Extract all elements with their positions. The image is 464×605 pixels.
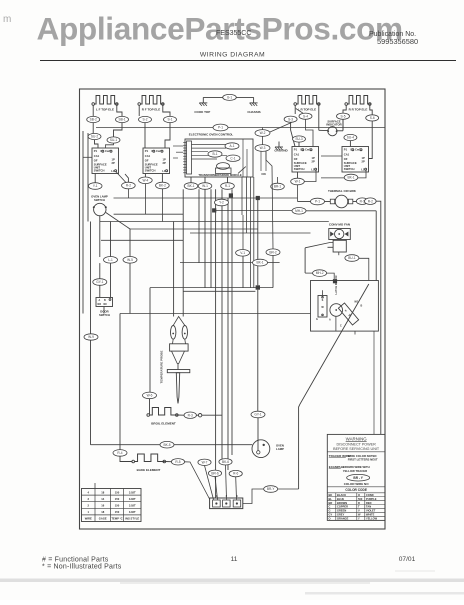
label C-3 [266, 249, 280, 256]
svg-text:R: R [358, 501, 360, 505]
temp probe receptacle [171, 326, 176, 340]
svg-text:G: G [316, 318, 318, 321]
svg-text:LATCH MOTOR: LATCH MOTOR [334, 275, 338, 294]
wire EOC drop d3 [250, 177, 252, 288]
svg-text:1P: 1P [312, 156, 315, 160]
ground CHASSIS [253, 97, 255, 103]
svg-text:P1: P1 [145, 149, 149, 153]
bus wire y210 [306, 210, 376, 212]
svg-text:G: G [329, 509, 331, 513]
svg-text:150: 150 [115, 490, 120, 494]
wire S-2 to S2 [144, 123, 146, 148]
wire breaker right [353, 201, 357, 203]
transformer spark module [217, 163, 230, 170]
label F-2 [345, 255, 359, 262]
label R-14 [291, 178, 305, 185]
wire SU-2 lead [95, 140, 99, 148]
label L-3 [93, 279, 107, 286]
wire EOC drop d1 [241, 177, 243, 215]
svg-text:P1: P1 [94, 149, 98, 153]
svg-text:GROUND: GROUND [274, 149, 288, 153]
svg-text:BR - Y: BR - Y [353, 476, 363, 480]
svg-text:S-2: S-2 [143, 118, 148, 122]
svg-text:# = Functional Parts: # = Functional Parts [42, 557, 109, 564]
title rule [40, 60, 456, 62]
label V-1 [215, 199, 229, 206]
svg-text:V: V [358, 509, 360, 513]
wire EOC to labels [190, 177, 192, 183]
svg-text:m: m [3, 14, 11, 25]
wire probe leads [173, 222, 175, 317]
wire BR-Y right [278, 488, 299, 490]
svg-text:5995356580: 5995356580 [377, 37, 418, 46]
svg-text:SWITCH: SWITCH [99, 313, 110, 317]
svg-text:BR-1: BR-1 [274, 185, 281, 189]
wire RF left lead [138, 105, 140, 116]
EOC pin wire 5 [192, 158, 218, 160]
svg-text:BK-1: BK-1 [256, 261, 263, 265]
svg-text:ELECTRONIC OVEN CONTROL: ELECTRONIC OVEN CONTROL [189, 133, 234, 137]
svg-text:18: 18 [101, 490, 104, 494]
latch motor [330, 304, 343, 317]
svg-text:L F TOP ELE: L F TOP ELE [96, 108, 114, 112]
svg-text:R-5: R-5 [175, 460, 180, 464]
wire bake elbow [120, 456, 133, 461]
wire f2 link [338, 252, 340, 255]
svg-text:FIRST LETTERS NEXT: FIRST LETTERS NEXT [348, 458, 378, 462]
wire transformer diag [238, 167, 246, 174]
label R-15 [344, 174, 358, 181]
wire latch right drop [373, 331, 375, 434]
wire bus v5 [215, 189, 217, 498]
svg-text:3.02T: 3.02T [129, 497, 136, 501]
wire S3-S4 link [321, 155, 342, 157]
svg-text:INS STYLE: INS STYLE [125, 517, 139, 521]
wire S2b [125, 174, 128, 182]
svg-text:LAMP: LAMP [276, 447, 284, 451]
svg-text:R-3: R-3 [188, 413, 193, 417]
label T-2 [219, 459, 232, 465]
label T-3 [208, 470, 221, 476]
svg-text:1P: 1P [112, 157, 115, 161]
label SU-3 [293, 136, 306, 142]
svg-text:150: 150 [115, 497, 120, 501]
svg-text:S-6: S-6 [370, 116, 375, 120]
svg-text:VIOLET: VIOLET [366, 509, 376, 513]
label S-6 [366, 115, 379, 121]
wire breaker to right rail [376, 201, 381, 434]
EOC inner divider [242, 139, 244, 177]
svg-text:S-4: S-4 [303, 114, 308, 118]
EOC pin wire 1 [192, 144, 237, 146]
wire mh1 left [214, 210, 292, 212]
svg-text:OF: OF [145, 159, 149, 163]
wire mh2 runs [305, 272, 313, 274]
svg-text:BK-1: BK-1 [347, 176, 354, 180]
wire SU-3 lead [298, 142, 300, 146]
wire x305 drop [304, 248, 306, 273]
svg-text:2P: 2P [112, 161, 115, 165]
svg-text:NC: NC [104, 303, 108, 306]
wire bus v4 [210, 189, 212, 287]
svg-text:BR-6: BR-6 [211, 471, 218, 475]
svg-text:BK-6: BK-6 [222, 460, 229, 464]
wire T3 diag [215, 477, 218, 500]
label L-4 [84, 334, 98, 340]
wire EOC drop d2 [246, 177, 248, 233]
svg-text:Y: Y [358, 517, 360, 521]
svg-text:A-1: A-1 [230, 144, 235, 148]
wire bake right [165, 461, 172, 463]
wire BK-2 drop [161, 189, 163, 222]
wire C3 drop [272, 256, 274, 288]
svg-text:NO: NO [98, 303, 102, 306]
bus wire y444 [91, 444, 253, 446]
door switch box [96, 298, 113, 307]
wire S1 left pin [83, 156, 92, 158]
wire S3 to label [297, 172, 299, 178]
svg-text:PURPLE: PURPLE [366, 497, 377, 501]
svg-text:W-6: W-6 [147, 394, 153, 398]
svg-text:16: 16 [101, 504, 104, 508]
svg-text:Y-2: Y-2 [219, 201, 224, 205]
label W-3 [255, 145, 270, 152]
wire lamp switch diag [106, 213, 130, 258]
svg-text:G-1: G-1 [227, 96, 233, 100]
wire RF right lead [163, 105, 170, 116]
wire latch leads [322, 290, 324, 295]
svg-text:V-1: V-1 [240, 251, 245, 255]
wire SB-2 to S1 [92, 123, 94, 135]
bus wire y313 [120, 313, 311, 315]
svg-text:14: 14 [101, 497, 104, 501]
bus wire y229 [130, 228, 258, 230]
svg-text:S-5: S-5 [341, 114, 346, 118]
wire S4 L1 elbow [358, 170, 366, 178]
svg-text:BROWN: BROWN [337, 501, 347, 505]
svg-text:3.02T: 3.02T [129, 504, 136, 508]
label BR-4 [184, 412, 196, 418]
svg-text:A: A [99, 299, 101, 302]
wire bus v3 [204, 189, 206, 287]
switch S4 surface unit switch [342, 147, 369, 173]
svg-text:BLUE: BLUE [337, 497, 344, 501]
svg-text:P1: P1 [344, 148, 348, 152]
svg-text:BU-1: BU-1 [348, 256, 355, 260]
wire y290 run [183, 290, 255, 292]
junction J4 [333, 279, 337, 283]
label SU-1 [107, 137, 120, 143]
wire S-3 to S3 [291, 122, 295, 146]
wire LF right lead [117, 105, 122, 116]
wire lamp to door [99, 263, 101, 279]
svg-text:MH-2: MH-2 [316, 271, 324, 275]
svg-text:07/01: 07/01 [399, 556, 416, 563]
junction J2 [212, 208, 216, 212]
wire S-1 to S2 [165, 123, 170, 148]
svg-text:THERMAL CIR BRK: THERMAL CIR BRK [328, 189, 357, 193]
bus wire y127 [96, 127, 385, 129]
broil element [149, 408, 177, 416]
svg-text:C: C [329, 505, 331, 509]
label BK-5 [160, 441, 174, 448]
wire S-4 lead [296, 109, 303, 114]
label S-2 [139, 116, 152, 122]
svg-text:BR-Y: BR-Y [267, 487, 275, 491]
svg-text:C-1: C-1 [230, 156, 235, 160]
wire W-4 drop [144, 184, 146, 215]
label C-2 [236, 250, 250, 257]
svg-text:WIRING DIAGRAM: WIRING DIAGRAM [200, 52, 265, 59]
switch S1 surface unit switch [92, 148, 119, 174]
wire T4 drop [235, 477, 238, 500]
label C-4 [253, 259, 268, 266]
label TB-1 [311, 198, 325, 205]
svg-text:COND: COND [366, 493, 374, 497]
svg-text:500: 500 [358, 497, 363, 501]
svg-text:B-1: B-1 [213, 152, 218, 156]
svg-text:CONV MO FAN: CONV MO FAN [329, 222, 350, 226]
wire gauge table [82, 489, 142, 522]
svg-text:S-3: S-3 [288, 117, 293, 121]
label BR-3 [143, 392, 157, 399]
junction J5 [256, 196, 260, 200]
svg-text:W-9: W-9 [88, 335, 94, 339]
wire broil right [177, 414, 184, 416]
switch S3 surface unit switch [292, 147, 319, 173]
wire left rail B [87, 133, 89, 222]
svg-text:WARNING: WARNING [346, 437, 368, 442]
wire SB-1 to S1 [114, 123, 123, 137]
svg-text:SB-2: SB-2 [90, 118, 97, 122]
temp probe plug [167, 370, 190, 373]
svg-text:R-4: R-4 [117, 451, 122, 455]
bus wire y233 [190, 232, 311, 234]
wire RR left lead [343, 105, 346, 113]
warning and color code box [327, 434, 385, 520]
label MH-2 [313, 270, 327, 277]
wire right rail drop [375, 211, 377, 281]
svg-text:BLACK: BLACK [337, 493, 346, 497]
svg-text:SWITCH: SWITCH [294, 167, 305, 171]
label W-2 [255, 130, 270, 137]
svg-text:MH-1: MH-1 [295, 209, 303, 213]
wire EOC pin stubs left [173, 145, 183, 147]
svg-text:BAKE ELEMENT: BAKE ELEMENT [137, 468, 161, 472]
oven lamp switch [94, 203, 106, 215]
svg-text:W-1: W-1 [202, 184, 208, 188]
wire relay diag [305, 243, 333, 248]
fan relay box [333, 240, 346, 252]
label P-1 [213, 124, 228, 131]
svg-text:R F TOP ELE: R F TOP ELE [142, 108, 160, 112]
svg-text:1P: 1P [362, 156, 365, 160]
svg-text:Y-1: Y-1 [93, 184, 98, 188]
bus wire y240 [101, 239, 184, 241]
svg-text:AppliancePartsPros.com: AppliancePartsPros.com [37, 11, 403, 47]
label EOC B [208, 151, 222, 157]
wire x150 drop [149, 288, 151, 393]
label T-4 [229, 470, 242, 476]
wire table stub [94, 483, 96, 489]
svg-text:W-4: W-4 [143, 178, 149, 182]
latch switch [318, 296, 327, 318]
svg-text:SWITCH: SWITCH [145, 168, 156, 172]
svg-text:BK-1: BK-1 [187, 184, 194, 188]
svg-text:R-2: R-2 [368, 199, 373, 203]
svg-text:CA1: CA1 [344, 153, 350, 157]
wire ON leads [260, 148, 262, 171]
label R-18 [156, 182, 170, 189]
svg-text:SU-1: SU-1 [110, 138, 117, 142]
wire RR right lead [370, 105, 372, 115]
svg-text:GY: GY [329, 513, 333, 517]
scan streak bottom [0, 579, 464, 583]
wire latch bottom stub [354, 331, 356, 334]
svg-text:GAGE: GAGE [99, 517, 107, 521]
svg-text:CA1: CA1 [294, 153, 300, 157]
wire broil return [202, 414, 222, 416]
label L-2 [123, 257, 137, 264]
svg-text:11: 11 [231, 556, 238, 563]
label MH-1 [292, 208, 306, 215]
svg-text:GY-1: GY-1 [254, 413, 261, 417]
svg-text:TAN: TAN [366, 505, 371, 509]
wire L1 drop [110, 222, 112, 257]
svg-text:P1: P1 [294, 148, 298, 152]
svg-text:W-7: W-7 [202, 460, 208, 464]
label S-4 [299, 113, 312, 119]
svg-text:SWITCH: SWITCH [94, 198, 105, 202]
svg-text:CA1: CA1 [94, 154, 100, 158]
wire R-2 drop [127, 189, 129, 198]
label R-17 [139, 177, 153, 184]
wire left rail A [82, 131, 84, 314]
wire C2 drop [242, 256, 244, 288]
svg-text:BK-2: BK-2 [159, 184, 166, 188]
label R-19 [88, 183, 102, 190]
svg-text:R R TOP ELE: R R TOP ELE [349, 108, 368, 112]
svg-text:W-3: W-3 [260, 146, 266, 150]
svg-text:COLOR WIRE NO: COLOR WIRE NO [344, 482, 369, 486]
svg-text:GY-1: GY-1 [96, 280, 103, 284]
wire LR right lead [318, 105, 320, 130]
svg-text:GREY: GREY [337, 513, 345, 517]
bus wire y287 [150, 287, 273, 289]
wire LF left lead [92, 105, 94, 116]
wire bus v7 [227, 198, 229, 470]
ground COOK TOP [202, 97, 204, 103]
thermal circuit breaker [335, 195, 348, 208]
broil return node [198, 414, 201, 417]
svg-text:OF: OF [344, 157, 348, 161]
wire x120 drop [119, 314, 121, 450]
svg-text:B: B [104, 299, 106, 302]
svg-text:O: O [329, 517, 331, 521]
svg-text:YELLOW TRACER: YELLOW TRACER [343, 469, 367, 473]
svg-text:L R TOP ELE: L R TOP ELE [298, 108, 316, 112]
label L-1 [104, 257, 118, 264]
wire bake diag [185, 462, 210, 500]
EOC pin wire 2 [192, 147, 227, 149]
junction J1 [229, 193, 233, 197]
svg-text:* = Non-Illustrated Parts: * = Non-Illustrated Parts [42, 564, 122, 571]
svg-text:B: B [361, 304, 363, 307]
wire indicator leads [319, 129, 328, 131]
surface indicator lamp [328, 127, 337, 136]
label T-1 [198, 459, 211, 465]
label EOC A [225, 143, 239, 149]
svg-text:BR: BR [329, 501, 333, 505]
wire S3 L1 elbow [304, 170, 316, 182]
label R-11 [198, 183, 212, 190]
wire broil feed [149, 391, 151, 393]
wire BR-1 lead [277, 177, 279, 183]
element RF TOP ELE [140, 96, 164, 105]
label R-10 [184, 183, 198, 190]
label S-1 [164, 116, 177, 122]
svg-text:SWITCH: SWITCH [94, 168, 105, 172]
svg-text:2P: 2P [312, 159, 315, 163]
element LF TOP ELE [94, 96, 118, 105]
wire LR left lead [294, 105, 296, 114]
svg-text:COPPER: COPPER [337, 505, 348, 509]
svg-text:FES355CC: FES355CC [216, 30, 251, 37]
svg-text:TEMPERATURE PROBE: TEMPERATURE PROBE [160, 350, 164, 383]
label bake feed [113, 450, 127, 457]
element LR TOP ELE [296, 96, 320, 105]
svg-text:TEMP °C: TEMP °C [111, 517, 122, 521]
svg-text:OF: OF [94, 159, 98, 163]
svg-text:A: A [329, 319, 331, 322]
svg-text:R-1: R-1 [225, 184, 230, 188]
wire EOC drop d4 [253, 177, 255, 288]
wire L2 drop [129, 263, 131, 313]
svg-text:SU-3: SU-3 [295, 137, 302, 141]
svg-text:COLOR CODE: COLOR CODE [345, 488, 367, 492]
svg-text:P-1: P-1 [218, 126, 223, 130]
svg-text:2P: 2P [163, 161, 166, 165]
EOC pin wire 4 [192, 154, 228, 156]
svg-text:150: 150 [115, 510, 120, 514]
svg-text:CA1: CA1 [145, 154, 151, 158]
svg-text:O: O [358, 493, 360, 497]
switch S2 surface unit switch [143, 148, 170, 174]
svg-text:R-6: R-6 [233, 472, 238, 476]
wire S1 to label [94, 174, 96, 183]
svg-text:RED: RED [366, 501, 372, 505]
bus wire y221 [100, 221, 329, 223]
wire junction drop [257, 198, 259, 259]
svg-text:150: 150 [115, 504, 120, 508]
EOC connector strip [187, 141, 192, 174]
wire S2 to label [144, 174, 146, 178]
EOC pin wire 3 [192, 151, 209, 153]
svg-text:WHITE: WHITE [366, 513, 375, 517]
element RR TOP ELE [347, 96, 371, 105]
svg-text:BROIL ELEMENT: BROIL ELEMENT [151, 421, 176, 425]
svg-text:GREEN: GREEN [337, 509, 346, 513]
svg-text:CHASSIS: CHASSIS [247, 110, 260, 114]
svg-text:SWITCH: SWITCH [344, 167, 355, 171]
label SU-4 [344, 134, 357, 140]
svg-text:2P: 2P [362, 159, 365, 163]
svg-text:COOK TOP: COOK TOP [194, 110, 210, 114]
wire bus v8 [231, 189, 233, 455]
wire breaker row left [298, 201, 311, 203]
bus wire y264 [180, 262, 253, 264]
label bake right [171, 459, 184, 465]
